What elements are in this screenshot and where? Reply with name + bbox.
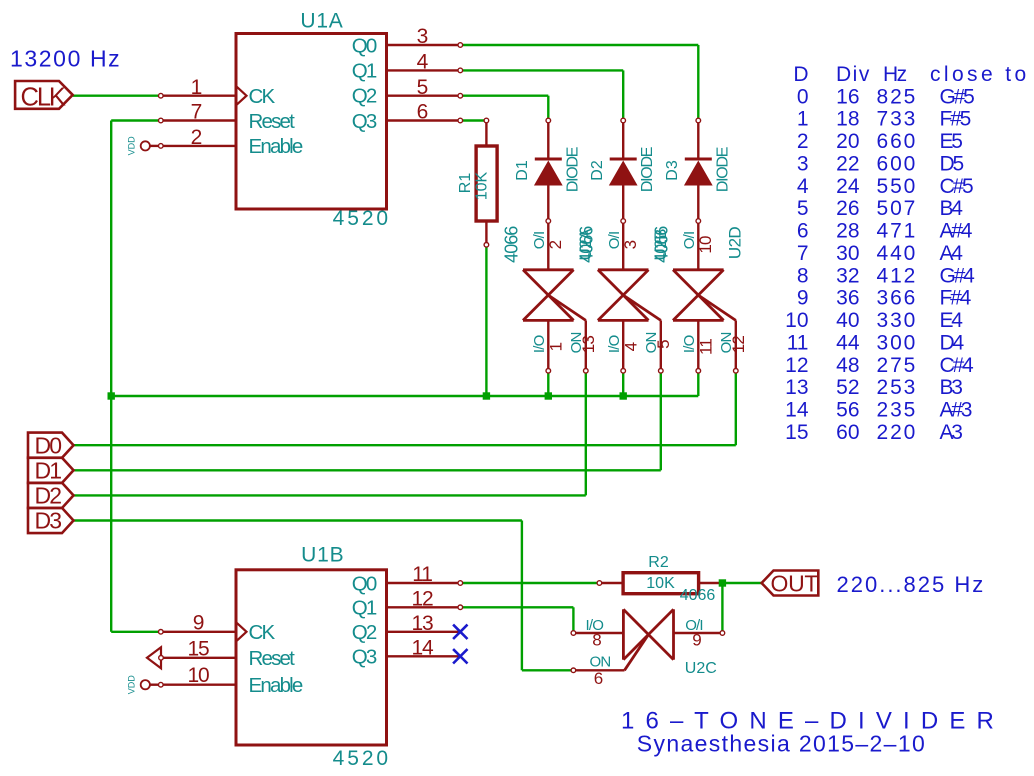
svg-text:60: 60 [836, 421, 859, 444]
svg-text:Q0: Q0 [352, 34, 377, 57]
svg-text:E5: E5 [940, 130, 963, 153]
svg-text:DIODE: DIODE [714, 147, 731, 192]
svg-text:Synaesthesia 2015–2–10: Synaesthesia 2015–2–10 [637, 731, 926, 757]
svg-text:Q2: Q2 [352, 85, 377, 108]
svg-text:A#3: A#3 [940, 399, 972, 422]
svg-text:CLK: CLK [21, 84, 66, 112]
svg-text:0: 0 [797, 85, 809, 108]
svg-text:2: 2 [546, 240, 565, 249]
svg-text:B3: B3 [940, 376, 963, 399]
svg-text:18: 18 [836, 108, 859, 131]
svg-text:U2D: U2D [725, 227, 744, 260]
svg-text:D3: D3 [664, 160, 681, 181]
svg-text:9: 9 [797, 287, 809, 310]
svg-text:4066: 4066 [576, 226, 596, 263]
svg-text:2: 2 [191, 126, 203, 149]
svg-text:6: 6 [594, 669, 603, 688]
svg-text:48: 48 [836, 354, 859, 377]
svg-text:G#5: G#5 [940, 85, 975, 108]
svg-text:D3: D3 [35, 508, 62, 534]
svg-text:7: 7 [191, 101, 203, 124]
svg-text:CK: CK [249, 621, 276, 644]
svg-text:220...825 Hz: 220...825 Hz [837, 572, 986, 597]
svg-text:Q3: Q3 [352, 646, 377, 669]
svg-text:15: 15 [188, 637, 209, 660]
svg-text:56: 56 [836, 399, 859, 422]
svg-text:Enable: Enable [249, 135, 303, 158]
svg-text:440: 440 [877, 242, 918, 265]
svg-text:220: 220 [877, 421, 918, 444]
svg-text:44: 44 [836, 331, 860, 354]
svg-text:4520: 4520 [333, 747, 391, 770]
svg-text:4066: 4066 [651, 226, 671, 263]
svg-text:12: 12 [729, 336, 748, 354]
svg-text:3: 3 [417, 25, 429, 48]
svg-text:550: 550 [877, 175, 918, 198]
svg-text:4: 4 [622, 342, 641, 351]
svg-text:9: 9 [193, 611, 204, 634]
svg-text:U2C: U2C [685, 660, 717, 677]
svg-text:2: 2 [797, 130, 809, 153]
svg-text:3: 3 [797, 152, 809, 175]
svg-text:11: 11 [412, 563, 432, 586]
svg-text:12: 12 [785, 354, 808, 377]
svg-text:11: 11 [697, 339, 716, 355]
svg-text:300: 300 [877, 331, 918, 354]
svg-text:36: 36 [836, 287, 859, 310]
svg-text:U1A: U1A [300, 10, 343, 33]
svg-text:14: 14 [412, 637, 434, 660]
svg-text:A3: A3 [940, 421, 963, 444]
svg-text:Q3: Q3 [352, 110, 377, 133]
svg-text:32: 32 [836, 264, 859, 287]
svg-text:DIODE: DIODE [639, 147, 656, 192]
svg-text:VDD: VDD [127, 675, 137, 695]
svg-text:1: 1 [797, 108, 809, 131]
svg-text:DIODE: DIODE [564, 147, 581, 192]
svg-text:600: 600 [877, 152, 918, 175]
svg-text:28: 28 [836, 220, 859, 243]
svg-text:5: 5 [797, 197, 809, 220]
svg-text:D2: D2 [35, 483, 62, 509]
svg-text:8: 8 [797, 264, 809, 287]
svg-text:1: 1 [191, 76, 203, 99]
svg-text:4520: 4520 [333, 207, 391, 230]
svg-text:D1: D1 [35, 458, 62, 484]
svg-text:E4: E4 [940, 309, 964, 332]
svg-text:A#4: A#4 [940, 220, 973, 243]
svg-text:6: 6 [797, 220, 809, 243]
svg-text:Enable: Enable [249, 674, 303, 697]
svg-text:253: 253 [877, 376, 918, 399]
svg-text:8: 8 [592, 631, 601, 650]
svg-text:3: 3 [621, 240, 640, 249]
svg-text:Q1: Q1 [352, 597, 377, 620]
svg-text:4: 4 [417, 51, 429, 74]
svg-text:D0: D0 [35, 432, 62, 458]
svg-text:4: 4 [797, 175, 809, 198]
svg-text:F#4: F#4 [940, 287, 972, 310]
svg-text:Q1: Q1 [352, 60, 377, 83]
svg-text:10K: 10K [473, 171, 490, 200]
svg-text:B4: B4 [940, 197, 964, 220]
svg-text:VDD: VDD [127, 136, 137, 156]
svg-text:4066: 4066 [680, 587, 716, 604]
svg-text:16: 16 [836, 85, 859, 108]
svg-text:825: 825 [877, 85, 918, 108]
svg-text:40: 40 [836, 309, 859, 332]
svg-text:24: 24 [836, 175, 860, 198]
svg-text:6: 6 [417, 101, 429, 124]
svg-text:Div: Div [836, 63, 871, 86]
svg-text:12: 12 [412, 588, 433, 611]
svg-text:U1B: U1B [301, 543, 344, 566]
svg-text:CK: CK [249, 85, 276, 108]
svg-text:close to: close to [930, 63, 1030, 86]
svg-text:7: 7 [797, 242, 809, 265]
svg-text:20: 20 [836, 130, 859, 153]
svg-text:D1: D1 [514, 160, 531, 181]
svg-text:Reset: Reset [249, 647, 296, 670]
svg-text:10: 10 [785, 309, 808, 332]
svg-text:5: 5 [654, 340, 673, 349]
svg-text:C#4: C#4 [940, 354, 974, 377]
svg-text:OUT: OUT [771, 570, 819, 596]
svg-text:13: 13 [785, 376, 808, 399]
svg-text:11: 11 [787, 331, 809, 354]
svg-text:5: 5 [417, 76, 429, 99]
svg-text:14: 14 [785, 399, 809, 422]
svg-text:R1: R1 [457, 173, 474, 194]
svg-text:15: 15 [785, 421, 808, 444]
svg-text:Reset: Reset [249, 110, 296, 133]
svg-text:Q2: Q2 [352, 621, 377, 644]
svg-text:235: 235 [877, 399, 918, 422]
svg-text:26: 26 [836, 197, 859, 220]
svg-text:366: 366 [877, 287, 918, 310]
svg-text:Q0: Q0 [352, 572, 377, 595]
svg-text:275: 275 [877, 354, 918, 377]
svg-text:A4: A4 [940, 242, 964, 265]
svg-text:30: 30 [836, 242, 859, 265]
svg-text:13200 Hz: 13200 Hz [10, 46, 121, 72]
svg-text:4066: 4066 [501, 226, 521, 263]
svg-text:F#5: F#5 [940, 108, 971, 131]
svg-text:9: 9 [692, 631, 701, 650]
svg-text:52: 52 [836, 376, 859, 399]
svg-text:10: 10 [696, 236, 715, 254]
svg-text:D2: D2 [589, 160, 606, 181]
svg-text:D: D [793, 63, 808, 86]
svg-text:412: 412 [877, 264, 918, 287]
svg-text:G#4: G#4 [940, 264, 976, 287]
svg-text:507: 507 [877, 197, 918, 220]
svg-text:D5: D5 [940, 152, 964, 175]
svg-text:R2: R2 [648, 554, 669, 571]
svg-text:330: 330 [877, 309, 918, 332]
svg-text:D4: D4 [940, 331, 965, 354]
svg-text:471: 471 [877, 220, 918, 243]
svg-text:C#5: C#5 [940, 175, 973, 198]
svg-text:733: 733 [877, 108, 918, 131]
svg-text:Hz: Hz [883, 63, 907, 86]
svg-text:22: 22 [836, 152, 859, 175]
svg-text:13: 13 [579, 336, 598, 354]
svg-text:10K: 10K [646, 575, 675, 592]
svg-text:660: 660 [877, 130, 918, 153]
svg-text:13: 13 [412, 612, 433, 635]
svg-text:1: 1 [547, 342, 566, 351]
svg-text:10: 10 [188, 664, 209, 687]
